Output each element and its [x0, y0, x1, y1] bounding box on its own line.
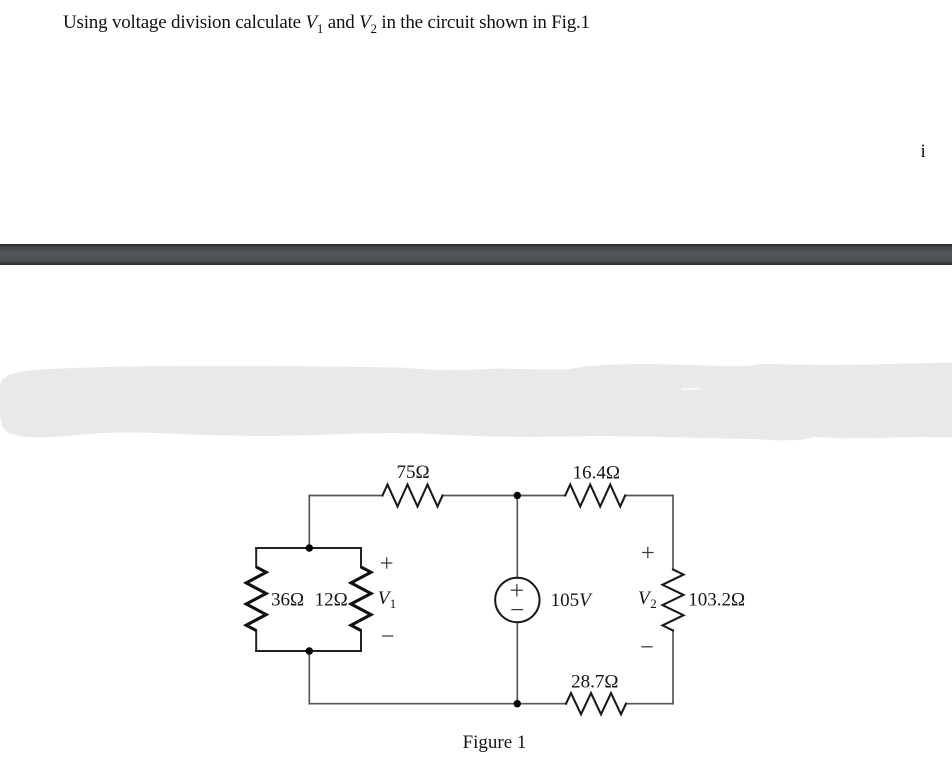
- svg-text:1: 1: [390, 596, 397, 611]
- wire right upper vertical: [672, 496, 674, 570]
- svg-text:36Ω: 36Ω: [271, 590, 304, 611]
- wire stub 12ohm bottom: [360, 631, 362, 652]
- node bottom-middle: [514, 700, 521, 707]
- wire bottom-right horizontal: [626, 703, 673, 705]
- wire bottom-left horizontal: [309, 703, 566, 705]
- wire right lower vertical: [672, 631, 674, 704]
- svg-text:2: 2: [650, 596, 657, 611]
- node top-left: [306, 544, 313, 551]
- wire left upper vertical: [308, 496, 310, 549]
- dark separator bar: [0, 244, 952, 265]
- node top-middle: [514, 492, 521, 499]
- svg-text:Figure 1: Figure 1: [463, 732, 527, 753]
- svg-text:105V: 105V: [551, 590, 594, 611]
- node bottom-left: [306, 647, 313, 654]
- svg-text:103.2Ω: 103.2Ω: [688, 590, 745, 611]
- wire middle lower vertical: [516, 622, 518, 704]
- V1 minus sign: [382, 635, 393, 637]
- resistor 36ohm: [246, 567, 266, 631]
- wire top-middle horizontal: [443, 495, 566, 497]
- resistor 12ohm: [351, 567, 371, 631]
- wire top-left horizontal: [309, 495, 382, 497]
- wire stub 36ohm top: [255, 548, 257, 567]
- svg-text:28.7Ω: 28.7Ω: [571, 671, 618, 692]
- V2 minus sign: [641, 646, 652, 648]
- resistor 28.7ohm: [566, 693, 626, 714]
- inner loop top rail: [256, 547, 361, 549]
- V1 plus sign: [381, 557, 392, 568]
- inner loop bottom rail: [256, 650, 361, 652]
- wire top-right horizontal: [625, 495, 673, 497]
- resistor 103.2ohm: [663, 570, 684, 631]
- resistor 16.4ohm: [565, 485, 625, 507]
- page marker i: [921, 141, 926, 163]
- svg-text:75Ω: 75Ω: [396, 462, 429, 483]
- wire left lower vertical: [308, 651, 310, 704]
- source minus sign: [511, 609, 523, 611]
- title text: [63, 12, 590, 37]
- wire middle upper vertical: [516, 496, 518, 578]
- wire stub 36ohm bottom: [255, 631, 257, 652]
- V2 plus sign: [642, 547, 653, 558]
- voltage source V=105V: [495, 578, 539, 622]
- svg-text:12Ω: 12Ω: [315, 590, 348, 611]
- resistor 75ohm: [383, 485, 443, 507]
- wire stub 12ohm top: [360, 548, 362, 567]
- svg-text:16.4Ω: 16.4Ω: [573, 462, 620, 483]
- source plus sign: [511, 584, 523, 596]
